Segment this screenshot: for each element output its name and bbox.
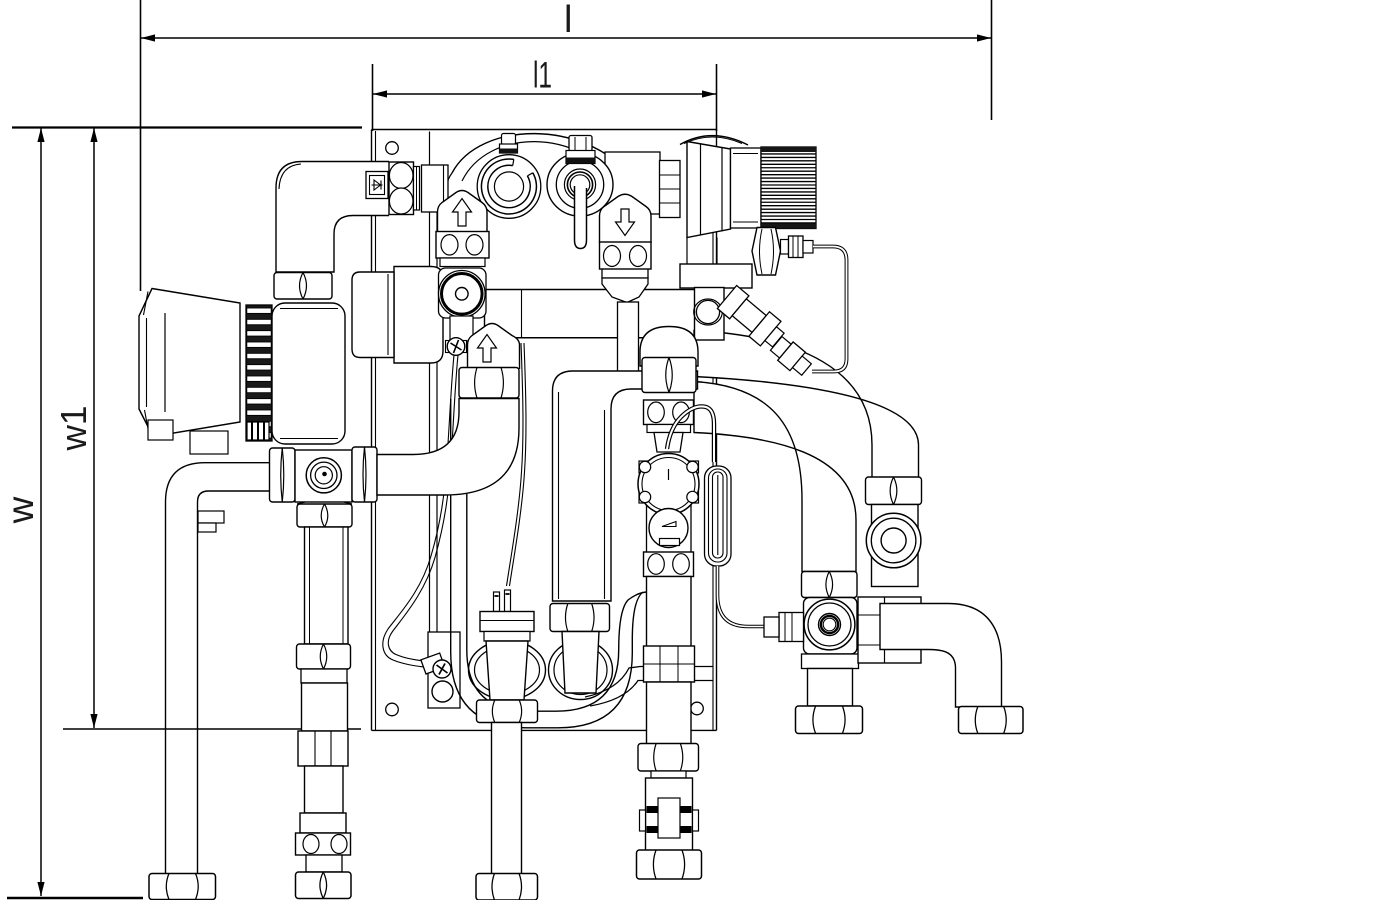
return elbow pipe bbox=[166, 463, 271, 502]
pump cone bbox=[139, 289, 240, 437]
actuator adapter cone bbox=[687, 142, 731, 238]
union nut bbox=[297, 644, 351, 669]
compression fitting bbox=[781, 240, 789, 255]
union block below plate bbox=[298, 731, 348, 766]
3-way valve top hex bbox=[802, 572, 858, 598]
check valve elbow bbox=[276, 162, 389, 273]
svg-text:w: w bbox=[0, 496, 41, 524]
dimension w extension top bbox=[12, 126, 362, 128]
diagonal compression fitting bbox=[768, 334, 814, 378]
clamp screw bbox=[433, 660, 451, 678]
supply pipe curve outer bbox=[694, 331, 919, 478]
bottom nut 2 bbox=[296, 872, 352, 899]
sensor prongs bbox=[494, 592, 500, 612]
actuator valve body bbox=[680, 264, 752, 288]
pump terminal knob bbox=[247, 422, 269, 440]
sensor ring bbox=[469, 641, 546, 700]
elbow pipe right bbox=[880, 604, 1002, 708]
capillary tube pump bbox=[383, 355, 454, 668]
valve block with ports bbox=[296, 833, 351, 855]
sensor cap bbox=[480, 612, 534, 632]
side tabs bbox=[639, 461, 651, 473]
dimension l1 extension right bbox=[716, 64, 718, 131]
actuator knurled knob bbox=[761, 147, 816, 229]
mixing hex bbox=[638, 744, 699, 772]
port 2 handle loop bbox=[575, 186, 587, 249]
port block B bbox=[644, 552, 694, 577]
check valve window bbox=[366, 172, 388, 199]
riser pipe bbox=[305, 527, 349, 644]
sensor hex bbox=[477, 700, 538, 723]
dimension w1 extension bottom bbox=[63, 728, 361, 730]
bracket plate bbox=[428, 632, 460, 708]
pump motor body bbox=[272, 303, 345, 444]
mixing coupling bbox=[644, 646, 695, 682]
dimension w extension bottom bbox=[7, 897, 143, 900]
manifold pipe bbox=[485, 289, 695, 291]
pump foot bbox=[148, 420, 173, 440]
isolating valve 2 up bbox=[468, 324, 520, 370]
gauge bbox=[306, 458, 341, 493]
dimension l1 extension left bbox=[372, 64, 374, 131]
sensor bottom nut bbox=[476, 874, 538, 900]
3-way flange bbox=[802, 654, 859, 669]
mounting hole bottom-left bbox=[386, 703, 399, 716]
U pipe inner wall bbox=[467, 399, 646, 711]
elbow junction bbox=[422, 165, 449, 212]
mixing pipe bbox=[647, 577, 692, 649]
central ring bbox=[549, 641, 613, 700]
dimension line w1 bbox=[93, 128, 95, 728]
actuator collar bbox=[731, 148, 762, 228]
port 2 valve bbox=[605, 152, 660, 214]
central hex bbox=[550, 604, 610, 632]
tee block bbox=[858, 597, 921, 663]
funnel pipe bbox=[618, 302, 639, 372]
port block A bbox=[644, 400, 694, 425]
capillary tube to sensor bbox=[507, 343, 523, 586]
pipe bracket bbox=[198, 511, 224, 523]
right bottom nut bbox=[959, 707, 1024, 734]
dimension line w bbox=[40, 128, 42, 896]
dimension l extension right bbox=[991, 0, 993, 120]
mounting hole bottom-right bbox=[691, 702, 704, 715]
tee fitting bbox=[695, 288, 725, 341]
elbow hex bbox=[389, 162, 414, 215]
elbow rings bbox=[414, 167, 420, 211]
coil tail to 3-way valve bbox=[718, 566, 765, 627]
diagonal valve bbox=[717, 285, 789, 353]
mounting hole top-left bbox=[386, 142, 399, 155]
isolating valve down bbox=[600, 194, 652, 243]
pipe top bend bbox=[553, 371, 698, 601]
svg-text:l: l bbox=[564, 0, 572, 41]
heat exchanger dome bbox=[452, 134, 630, 176]
union nut mixing bbox=[642, 358, 696, 393]
svg-text:w1: w1 bbox=[53, 406, 94, 452]
3-way pipe down bbox=[808, 669, 853, 707]
central inner pipe bbox=[562, 632, 599, 694]
sensor pipe bbox=[492, 723, 522, 875]
dimension l extension left bbox=[140, 0, 142, 291]
backplate bbox=[372, 129, 717, 131]
sensor body bbox=[486, 641, 528, 700]
stub to plate bbox=[377, 399, 519, 496]
sight glass hex bbox=[866, 477, 922, 505]
3-way left fitting bbox=[779, 613, 804, 642]
air vent cap bbox=[502, 134, 516, 145]
pipe 1 bottom nut bbox=[149, 874, 216, 900]
gauge cross body bbox=[295, 450, 352, 502]
valve mounting pad bbox=[439, 268, 487, 318]
pump knurled ring bbox=[246, 305, 272, 441]
mixing bottom nut bbox=[637, 850, 702, 879]
gauge cross right hex bbox=[352, 447, 377, 502]
hex column bbox=[660, 161, 681, 218]
supply pipe curve inner bbox=[694, 382, 856, 572]
port 1 C-ring bbox=[477, 155, 541, 219]
lower cylinder bbox=[649, 509, 688, 548]
sight glass body bbox=[872, 505, 919, 587]
dimension line l1 bbox=[373, 93, 716, 95]
valve head bbox=[646, 465, 648, 552]
bypass pipe wall bbox=[585, 667, 714, 698]
valve bonnet bbox=[654, 433, 683, 453]
riser dome bbox=[640, 327, 698, 367]
3-way bottom nut bbox=[796, 706, 863, 734]
pump bearing circle bbox=[439, 271, 486, 318]
port 2 hex band bbox=[566, 151, 595, 164]
mixing valve body low bbox=[651, 771, 686, 778]
capillary tube actuator bbox=[812, 247, 847, 372]
bleed screw bbox=[446, 341, 450, 353]
actuator dome bbox=[680, 136, 748, 145]
capillary clamp bbox=[421, 653, 445, 674]
inner panel edge bbox=[429, 132, 431, 633]
valve 2 hex bbox=[459, 368, 519, 399]
isolating valve up bbox=[438, 191, 488, 233]
svg-text:l1: l1 bbox=[533, 55, 552, 96]
capillary coil bbox=[705, 466, 732, 566]
side hex bbox=[752, 228, 781, 276]
valve funnel bbox=[602, 278, 648, 303]
capillary loop bbox=[667, 406, 714, 462]
U pipe outer wall bbox=[451, 399, 643, 728]
reducer hex bbox=[297, 502, 352, 504]
gauge cross left hex bbox=[270, 448, 296, 502]
3-way valve body bbox=[804, 598, 858, 655]
drain plug hatched bbox=[432, 681, 453, 702]
separator cylinder bbox=[394, 267, 443, 364]
dimension line l bbox=[141, 37, 991, 39]
pump union nut bbox=[274, 273, 332, 300]
port 2 cap bbox=[569, 136, 592, 152]
